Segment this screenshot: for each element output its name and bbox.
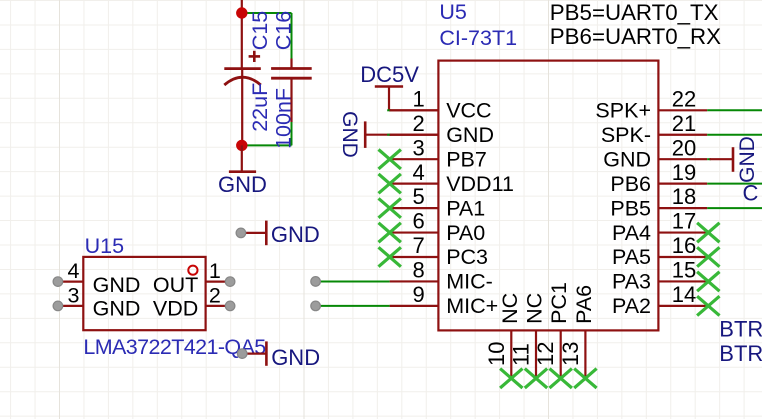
no-connect pin 16 (697, 247, 719, 266)
node (MIC- endpoint) (311, 277, 321, 287)
wire (DC5V to pin 1) (389, 109, 438, 111)
svg-text:U5: U5 (439, 0, 467, 24)
svg-text:MIC+: MIC+ (446, 294, 498, 318)
svg-text:12: 12 (533, 342, 558, 366)
pin 9 (MIC+) (390, 282, 499, 318)
node (pin 2 endpoint) (225, 301, 235, 311)
no-connect pin 3 (379, 150, 401, 169)
pin 2 (GND) (390, 111, 494, 147)
no-connect pin 4 (379, 174, 401, 193)
svg-text:5: 5 (413, 184, 425, 209)
node (lower ground endpoint) (237, 349, 247, 359)
svg-text:C16: C16 (272, 11, 296, 50)
pin 8 (MIC-) (390, 258, 493, 294)
IC U15 body (83, 257, 205, 330)
svg-text:PA2: PA2 (612, 294, 651, 318)
svg-text:C: C (743, 180, 759, 205)
ground (right of pin 20) (710, 147, 734, 172)
svg-text:7: 7 (413, 233, 425, 258)
svg-text:20: 20 (672, 135, 696, 160)
svg-text:14: 14 (672, 282, 696, 307)
wire (MIC+ net) (316, 305, 390, 307)
ground (left of pin 2) (365, 121, 438, 147)
pin 1 (VCC) (390, 86, 492, 122)
svg-text:6: 6 (413, 209, 425, 234)
supply DC5V (375, 87, 403, 111)
svg-text:GND: GND (271, 222, 320, 247)
pin 12 (PC1) (533, 282, 571, 377)
svg-text:U15: U15 (85, 234, 124, 258)
pin 3 (GND) (58, 283, 83, 307)
svg-text:OUT: OUT (153, 273, 198, 297)
svg-text:16: 16 (672, 233, 696, 258)
ground (lower, near U15) (242, 341, 266, 365)
svg-text:2: 2 (209, 283, 221, 307)
svg-text:4: 4 (413, 160, 425, 185)
svg-text:PB6=UART0_RX: PB6=UART0_RX (550, 24, 721, 49)
svg-text:22: 22 (672, 86, 696, 111)
svg-text:8: 8 (413, 258, 425, 283)
pin 21 (SPK-) (601, 111, 707, 147)
node (upper ground endpoint) (236, 228, 246, 238)
capacitor C15 (polarized 22uF) (224, 51, 260, 146)
svg-text:MIC-: MIC- (446, 270, 493, 294)
wire (MIC- net) (316, 280, 390, 282)
pin 17 (PA4) (612, 209, 707, 245)
wire (net from pin 18 to right edge) (707, 207, 762, 209)
pin 18 (PB5) (610, 184, 707, 220)
svg-text:PA6: PA6 (572, 285, 596, 324)
capacitor C16 (100nF) (271, 59, 312, 123)
svg-text:13: 13 (558, 342, 583, 366)
wire (net from pin 22 to right edge) (707, 109, 762, 111)
svg-text:3: 3 (413, 135, 425, 160)
node (MIC+ endpoint) (311, 301, 321, 311)
no-connect pin 11 (525, 369, 547, 388)
pin 10 (NC) (484, 293, 522, 378)
svg-text:22uF: 22uF (248, 83, 272, 132)
svg-text:GND: GND (271, 345, 320, 370)
pin names row 2 (GND VDD) (93, 297, 199, 321)
svg-text:PB5: PB5 (610, 196, 651, 220)
no-connect pin 14 (697, 296, 719, 315)
svg-text:BTRY: BTRY (719, 341, 762, 366)
pin 16 (PA5) (612, 233, 707, 269)
svg-text:18: 18 (672, 184, 696, 209)
svg-text:NC: NC (498, 293, 522, 324)
junction (pin1 corner speck) (387, 109, 391, 111)
node (pin 1 endpoint) (225, 277, 235, 287)
svg-text:PC3: PC3 (446, 245, 488, 269)
wire (net from pin 19 to right edge) (707, 183, 762, 185)
svg-text:19: 19 (672, 160, 696, 185)
svg-text:PA3: PA3 (612, 270, 651, 294)
svg-text:PB6: PB6 (610, 172, 651, 196)
no-connect pin 12 (550, 369, 572, 388)
svg-text:3: 3 (68, 283, 80, 307)
svg-text:9: 9 (413, 282, 425, 307)
svg-text:PC1: PC1 (547, 282, 571, 324)
svg-text:PA4: PA4 (612, 221, 651, 245)
pin 4 (GND) (58, 259, 83, 283)
no-connect pin 5 (379, 198, 401, 217)
no-connect pin 17 (697, 223, 719, 242)
svg-text:15: 15 (672, 258, 696, 283)
svg-text:2: 2 (413, 111, 425, 136)
svg-text:11: 11 (509, 343, 534, 366)
svg-text:PA5: PA5 (612, 245, 651, 269)
svg-text:4: 4 (68, 259, 80, 283)
svg-text:10: 10 (484, 342, 509, 366)
svg-text:GND: GND (338, 111, 361, 158)
no-connect pin 15 (697, 272, 719, 291)
pin 15 (PA3) (612, 258, 707, 294)
svg-text:SPK-: SPK- (601, 123, 651, 147)
ground (upper, near U15) (241, 221, 266, 246)
svg-text:BTRY: BTRY (719, 317, 762, 342)
pin 11 (NC) (509, 293, 547, 378)
pin 1 (OUT) (206, 259, 231, 283)
svg-text:GND: GND (736, 136, 759, 183)
svg-text:NC: NC (523, 293, 547, 324)
junction (bottom node) (236, 140, 247, 151)
ground (below capacitor bank) (229, 145, 256, 171)
svg-text:VDD11: VDD11 (446, 172, 514, 196)
svg-text:17: 17 (672, 209, 696, 234)
pin 5 (PA1) (390, 184, 486, 220)
pin 6 (PA0) (390, 209, 486, 245)
svg-text:PA0: PA0 (446, 221, 485, 245)
pin 7 (PC3) (390, 233, 488, 269)
svg-text:GND: GND (93, 273, 141, 297)
svg-text:1: 1 (209, 259, 221, 283)
no-connect pin 13 (574, 369, 596, 388)
svg-text:CI-73T1: CI-73T1 (439, 26, 517, 50)
junction (pin20 speck) (707, 158, 711, 160)
svg-text:SPK+: SPK+ (595, 99, 651, 123)
pin 13 (PA6) (558, 285, 596, 378)
no-connect pin 10 (500, 369, 522, 388)
svg-text:PB7: PB7 (446, 147, 487, 171)
svg-text:1: 1 (413, 86, 425, 111)
pin 14 (PA2) (612, 282, 707, 318)
pin 3 (PB7) (390, 135, 487, 171)
junction (pin2 speck) (387, 134, 391, 136)
svg-text:100nF: 100nF (272, 88, 296, 149)
pin 2 (VDD) (206, 283, 231, 307)
svg-text:PB5=UART0_TX: PB5=UART0_TX (550, 0, 719, 25)
wire (top net between C15 and C16) (242, 13, 292, 59)
wire (vertical feed from top edge into C15) (241, 0, 243, 69)
svg-text:GND: GND (218, 172, 267, 197)
junction (top node) (236, 7, 247, 18)
pin 20 (GND) (603, 135, 707, 171)
node (pin 4 endpoint) (53, 277, 63, 287)
svg-text:GND: GND (93, 297, 141, 321)
wire (net from pin 21 to right edge) (707, 134, 762, 136)
pin 4 (VDD11) (390, 160, 514, 196)
svg-text:VDD: VDD (153, 297, 198, 321)
pin 22 (SPK+) (595, 86, 707, 122)
svg-text:21: 21 (672, 111, 696, 136)
no-connect pin 6 (379, 223, 401, 242)
svg-text:C15: C15 (248, 11, 272, 50)
svg-text:VCC: VCC (446, 99, 491, 123)
pin names row 1 (GND OUT) (93, 273, 199, 297)
no-connect pin 7 (379, 247, 401, 266)
pin 19 (PB6) (610, 160, 707, 196)
svg-text:PA1: PA1 (446, 196, 485, 220)
node (pin 3 endpoint) (53, 301, 63, 311)
inversion dot (OUT pin) (188, 266, 197, 275)
wire (bottom net between C15 and C16) (242, 122, 292, 145)
IC U5 body (438, 61, 658, 331)
svg-text:DC5V: DC5V (360, 62, 419, 87)
svg-text:GND: GND (603, 147, 651, 171)
svg-text:GND: GND (446, 123, 494, 147)
